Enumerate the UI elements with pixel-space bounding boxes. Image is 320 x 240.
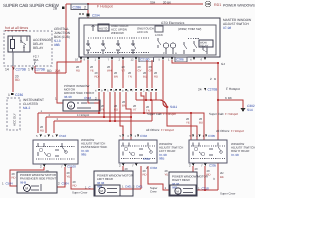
wire lower 120 [120, 92, 123, 140]
wire module pin 9 [88, 60, 100, 103]
LR motor inner box [95, 185, 120, 196]
svg-text:98B: 98B [81, 153, 86, 157]
auto switch box [98, 24, 109, 31]
pax switch bottom pins [43, 165, 45, 168]
svg-text:24: 24 [198, 88, 202, 92]
svg-text:RD: RD [76, 68, 80, 72]
svg-text:SUPER CAB SUPER CREW: SUPER CAB SUPER CREW [3, 3, 60, 8]
label gauge mid wires [101, 100, 150, 112]
mid connector row C2100 [98, 89, 157, 92]
svg-text:K BK: K BK [225, 96, 232, 100]
svg-text:RD: RD [114, 107, 118, 111]
contact circles [163, 43, 168, 48]
pax front switch box [33, 140, 78, 164]
svg-text:WH: WH [107, 68, 112, 72]
RR motor inner box [170, 185, 196, 195]
wire pax pin2 to motor [10, 167, 44, 186]
svg-text:BU: BU [143, 74, 147, 78]
svg-text:POWER WINDOWS: POWER WINDOWS [223, 4, 255, 8]
switch unit 2 [101, 40, 106, 54]
wire LR pin7 riser [120, 166, 141, 189]
module pin triangles [80, 58, 206, 61]
svg-text:C: C [163, 52, 165, 55]
connector label C286 [71, 4, 88, 10]
svg-text:C236: C236 [15, 93, 23, 97]
svg-text:LOCK: LOCK [155, 33, 163, 37]
svg-text:VT: VT [122, 68, 126, 72]
svg-text:BU: BU [199, 120, 203, 124]
svg-text:C510: C510 [59, 134, 67, 138]
instrument cluster dashed box [7, 98, 20, 130]
RR motor box [169, 172, 197, 196]
svg-text:C294: C294 [92, 14, 100, 18]
svg-text:F Hotspot: F Hotspot [77, 113, 89, 117]
svg-text:12: 12 [131, 57, 135, 61]
svg-text:RD: RD [15, 78, 20, 82]
svg-text:RELAY: RELAY [33, 46, 44, 50]
wire pax feeds down [38, 113, 54, 133]
svg-text:AUTO: AUTO [99, 27, 108, 31]
svg-text:Crew: Crew [150, 190, 158, 194]
svg-text:C286: C286 [73, 6, 82, 10]
svg-text:98B: 98B [54, 43, 60, 47]
wire RR pin1 drop [190, 113, 192, 140]
svg-text:98-98: 98-98 [64, 95, 72, 99]
LR bottom pins [122, 164, 124, 167]
switch unit 4 [131, 40, 136, 54]
bus B3 [46, 116, 131, 118]
svg-text:S411: S411 [170, 105, 177, 109]
svg-text:1: 1 [28, 68, 30, 72]
motor M1 [67, 102, 74, 109]
svg-text:C305: C305 [208, 134, 216, 138]
svg-text:VT: VT [133, 107, 137, 111]
svg-text:C504: C504 [6, 182, 14, 186]
svg-text:S14: S14 [247, 108, 253, 112]
svg-text:GY: GY [138, 68, 142, 72]
svg-text:RD: RD [143, 172, 147, 176]
wire lower 115 [114, 92, 116, 121]
svg-text:F Hotspot: F Hotspot [226, 87, 240, 91]
svg-text:C304: C304 [143, 157, 151, 161]
svg-text:20: 20 [125, 167, 129, 171]
svg-text:97-98: 97-98 [223, 26, 231, 30]
motor M3 [99, 187, 105, 193]
svg-text:YE: YE [90, 68, 94, 72]
wire module pin 10 [57, 60, 81, 103]
svg-text:YE: YE [186, 120, 190, 124]
wire LR motor to RR motor left [148, 166, 169, 190]
node dot [145, 99, 147, 101]
wdw relay box [199, 40, 213, 47]
RR switch box [189, 140, 227, 163]
svg-text:GN: GN [149, 68, 153, 72]
label gauge RR feeds [186, 117, 203, 124]
svg-text:RD: RD [40, 128, 44, 132]
svg-text:M: M [25, 187, 28, 191]
svg-text:BK: BK [220, 175, 224, 179]
svg-text:RD: RD [95, 74, 99, 78]
wire module pin 2 [122, 60, 124, 88]
wire module pin 1 [98, 60, 100, 113]
wire lower 146 [145, 92, 147, 100]
wire pax pin7 to motor right [57, 167, 65, 187]
svg-text:All Others: F Hotspot: All Others: F Hotspot [146, 128, 174, 132]
svg-text:G4: G4 [221, 62, 225, 66]
svg-text:2B: 2B [53, 7, 58, 11]
wire drop from B1 [151, 100, 153, 121]
CJB dashed box [4, 31, 52, 66]
svg-text:YE: YE [67, 174, 71, 178]
svg-text:ACC DLY: ACC DLY [13, 113, 17, 126]
svg-text:Super Crew: Super Crew [220, 192, 236, 196]
svg-text:YE: YE [165, 172, 169, 176]
LR switch box [119, 140, 157, 163]
wire lower 110 [109, 92, 111, 121]
svg-text:C318: C318 [202, 187, 210, 191]
wire module pin 7 [111, 60, 113, 88]
module GEM box [79, 18, 220, 57]
dashed link row [88, 38, 150, 53]
wire C294 drop [87, 4, 89, 20]
svg-text:(WDW, TRIM SW): (WDW, TRIM SW) [178, 27, 201, 31]
switch glyph left of relay [194, 41, 197, 52]
wire module pin 11 right feed [172, 60, 218, 190]
svg-text:RD1: RD1 [214, 3, 221, 7]
wire module pin 6 [151, 60, 153, 88]
svg-text:30A: 30A [33, 58, 38, 62]
svg-text:M: M [69, 104, 72, 108]
gauge labels column [76, 65, 158, 78]
node junction at C294 drop [87, 3, 89, 5]
wire module pin 5b [163, 60, 167, 107]
wire relay to CJB edge [12, 52, 14, 66]
wire from S411 down [167, 107, 197, 140]
svg-text:hot at all times: hot at all times [5, 26, 28, 30]
wire to G302 [218, 100, 243, 108]
motor M2 [24, 185, 31, 192]
branch to C302 [217, 99, 219, 101]
node C2B marker [62, 7, 65, 10]
svg-text:97-98: 97-98 [231, 153, 239, 157]
svg-text:Super Cab: F Hotspot: Super Cab: F Hotspot [147, 112, 176, 116]
svg-text:C304: C304 [150, 166, 158, 170]
svg-text:B: B [214, 77, 216, 81]
switch glyph right [184, 42, 187, 54]
svg-text:20 BK: 20 BK [163, 0, 171, 4]
label gauge bottom wires [12, 125, 211, 187]
svg-text:C305: C305 [209, 164, 217, 168]
connector arrow power windows [205, 1, 211, 7]
relay K1 box [8, 36, 30, 52]
svg-text:TN: TN [128, 74, 132, 78]
wire pax pin to LR motor [71, 167, 94, 189]
svg-text:2: 2 [84, 6, 86, 10]
svg-text:98-B: 98-B [20, 180, 26, 184]
connector triangle C302 [241, 108, 246, 112]
svg-text:RD: RD [47, 69, 52, 73]
wire lower 136 [135, 92, 137, 100]
wire RR pin7 drop [204, 166, 206, 190]
svg-text:RD: RD [73, 183, 77, 187]
bus B4 [54, 120, 152, 122]
svg-text:WINDOW: WINDOW [111, 31, 124, 35]
connector C294 square [87, 14, 90, 17]
svg-text:1: 1 [8, 93, 10, 97]
wire LR pin2 stub [122, 166, 124, 171]
node corner dot [217, 62, 219, 64]
wire lower 141 [141, 92, 144, 113]
svg-text:C304: C304 [140, 134, 148, 138]
pax front motor box [17, 172, 57, 193]
label C2100 pin row [139, 57, 154, 62]
svg-text:98B: 98B [159, 157, 164, 161]
relay coil [11, 40, 15, 49]
svg-text:C401: C401 [136, 185, 143, 189]
svg-text:Super Cab: F Hotspot: Super Cab: F Hotspot [209, 112, 238, 116]
driver front motor box [63, 100, 100, 111]
svg-text:C518: C518 [84, 96, 92, 100]
svg-text:C270B: C270B [208, 88, 218, 92]
svg-text:C504: C504 [62, 182, 70, 186]
svg-text:YE: YE [101, 107, 105, 111]
wire S411 curve [160, 100, 167, 107]
wire CJB to cluster [12, 66, 14, 92]
svg-text:A: A [175, 52, 177, 55]
svg-text:C401: C401 [125, 185, 132, 189]
svg-text:Super Crew: Super Crew [72, 191, 88, 195]
svg-text:298: 298 [55, 69, 61, 73]
wire lower 156 [155, 92, 157, 100]
RR bottom pins [192, 164, 194, 167]
svg-text:BN: BN [114, 74, 118, 78]
svg-text:RD: RD [154, 74, 158, 78]
motor M4 [175, 188, 181, 194]
pin number labels [75, 57, 203, 61]
svg-text:S04: S04 [150, 0, 156, 4]
svg-text:ACC DN: ACC DN [137, 30, 148, 34]
svg-text:14: 14 [5, 68, 9, 72]
svg-text:GTO Electronics: GTO Electronics [161, 21, 185, 25]
svg-text:F Hotspot: F Hotspot [97, 5, 113, 9]
svg-text:RD: RD [12, 175, 16, 179]
LR motor box [94, 171, 133, 196]
wire lower 104 [103, 92, 105, 117]
wire top power bus [35, 4, 203, 73]
wire module pin 12 [135, 60, 137, 88]
svg-text:C2100: C2100 [140, 58, 150, 62]
svg-text:10: 10 [75, 57, 79, 61]
svg-text:C270B: C270B [35, 68, 46, 72]
svg-text:C270B: C270B [16, 68, 27, 72]
svg-text:BN: BN [122, 103, 126, 107]
svg-text:20: 20 [195, 167, 199, 171]
relay contact [21, 36, 27, 52]
bus B1 [136, 99, 160, 101]
wire module pin 4 [146, 60, 148, 88]
bus B2 [38, 113, 204, 140]
svg-text:M4-2: M4-2 [23, 106, 30, 110]
switch unit 3 [116, 40, 121, 54]
wire lower 151 [150, 92, 152, 100]
svg-text:C286: C286 [176, 58, 184, 62]
node S411 [166, 106, 169, 109]
svg-text:All Others: F Hotspot: All Others: F Hotspot [216, 129, 244, 133]
wire lower 126 [126, 92, 131, 140]
switch unit 1 [86, 40, 91, 54]
wire RR pin2 stub [192, 166, 194, 172]
